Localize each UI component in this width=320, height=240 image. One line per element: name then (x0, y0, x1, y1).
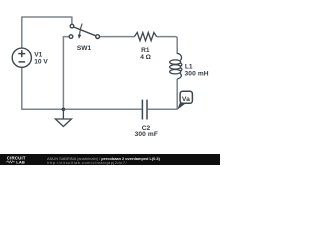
label L1 value (185, 63, 209, 77)
capacitor C2 (142, 100, 147, 120)
switch arrow head (78, 34, 82, 39)
label C2 value (135, 125, 158, 138)
svg-text:http://circuitlab.com/c/maxqap: http://circuitlab.com/c/maxqapj2du7/ (47, 160, 127, 165)
svg-text:Va: Va (182, 96, 190, 103)
node junction dot (62, 108, 66, 112)
node Va flag pointer (177, 102, 186, 110)
inductor L1 (170, 53, 182, 79)
wire from V1 minus down and along bottom rail to C2 (22, 68, 142, 110)
svg-text:4 Ω: 4 Ω (140, 54, 151, 61)
wire from SW1 throw B down to bottom rail (63, 37, 69, 110)
voltage source V1 (12, 48, 31, 67)
footer logo zigzag (6, 161, 15, 163)
label R1 value (140, 47, 151, 61)
svg-text:300 mH: 300 mH (185, 70, 209, 77)
wire bottom rail right segment (148, 108, 178, 110)
svg-text:LAB: LAB (16, 159, 25, 164)
node Va flag (180, 91, 192, 103)
resistor R1 (134, 33, 156, 41)
ground (55, 109, 71, 126)
wire from SW1 common to R1 (100, 36, 135, 38)
label V1 value (34, 52, 48, 66)
switch SW1 (69, 24, 99, 39)
footer bar (0, 154, 220, 165)
wire from R1 to right branch corner (157, 37, 178, 54)
wire right branch below L1 (176, 79, 178, 110)
svg-text:10 V: 10 V (34, 58, 48, 65)
svg-text:SW1: SW1 (77, 45, 92, 52)
wire top from V1 to SW1 (22, 17, 72, 48)
svg-text:300 mF: 300 mF (135, 131, 158, 138)
